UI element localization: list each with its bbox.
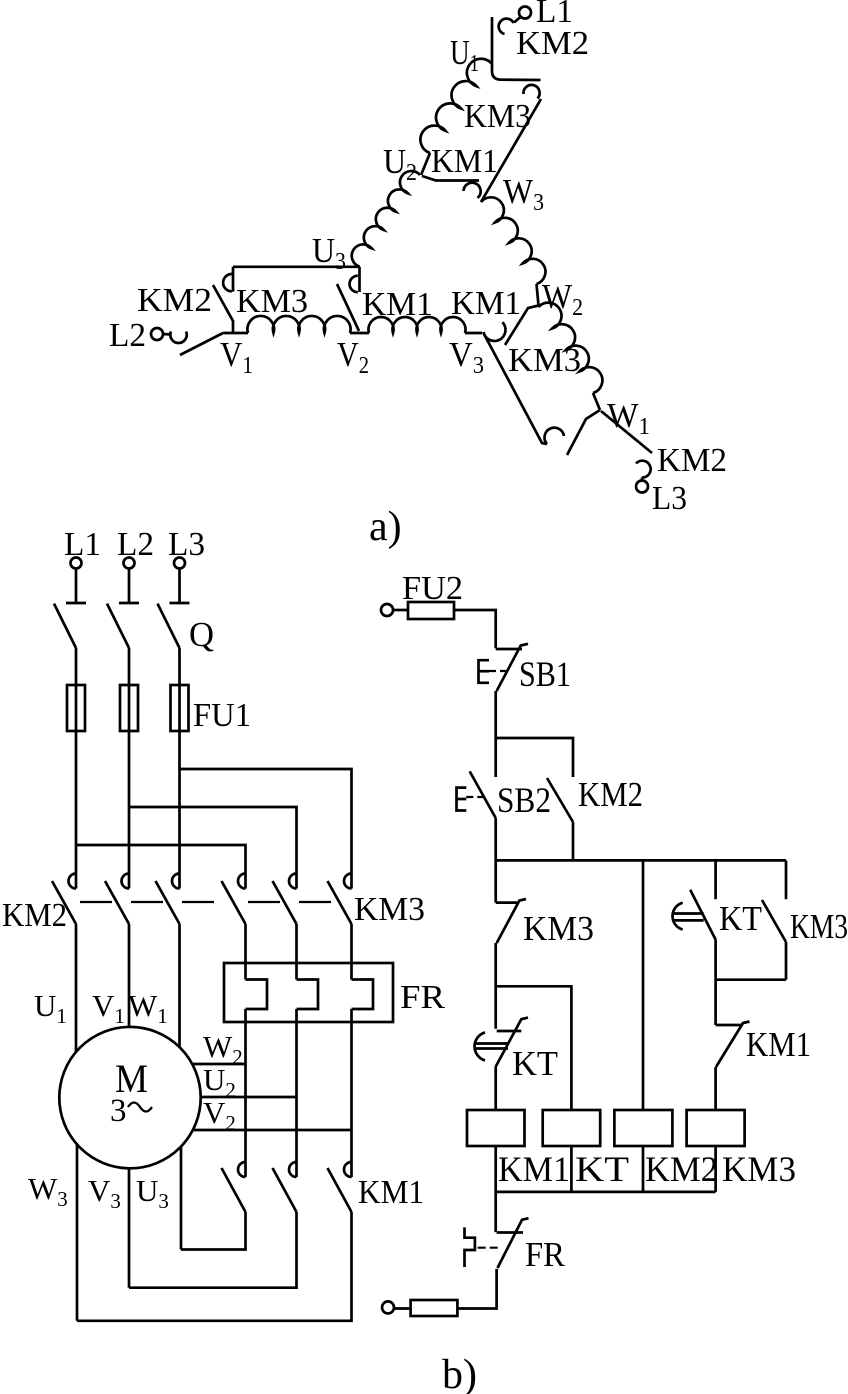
- wire motor bottom V3: [128, 1168, 131, 1287]
- terminal L1: [519, 7, 531, 19]
- wire motor bottom U3: [180, 1147, 183, 1250]
- node W1 wire: [593, 393, 600, 410]
- wire KM1-3 to W3: [77, 1212, 352, 1321]
- terminal control top: [381, 604, 393, 616]
- switch Q pole wire: [75, 569, 78, 602]
- wire to motor top: [178, 924, 181, 1047]
- svg-text:KM2: KM2: [516, 25, 589, 62]
- switch KM3 (V3-W1) blade: [567, 410, 600, 455]
- wire coil KM1 bottom: [494, 1146, 497, 1232]
- wire to FR box: [350, 924, 353, 980]
- node U2 wire: [421, 153, 430, 175]
- wire node CD: [716, 978, 786, 981]
- svg-text:KT: KT: [719, 899, 762, 938]
- fuse FU2 wire left: [393, 609, 408, 612]
- wire branch D top: [785, 860, 788, 899]
- svg-text:KM1: KM1: [431, 143, 498, 180]
- contact KM3 main hook: [238, 874, 246, 889]
- button SB1 blade: [497, 644, 528, 691]
- svg-text:L1: L1: [64, 526, 101, 563]
- svg-text:SB2: SB2: [497, 780, 551, 820]
- switch KM2 (L1-U1) hook: [499, 19, 514, 34]
- svg-text:L3: L3: [168, 526, 205, 563]
- winding coil U2-U3: [352, 171, 420, 267]
- fuse FU2 bottom: [411, 1300, 458, 1316]
- wire motor bottom W3: [76, 1145, 79, 1321]
- switch Q pole jaw bar: [119, 602, 139, 605]
- contact KM3 main blade: [273, 881, 297, 924]
- linkage dash: [80, 901, 112, 903]
- contact FR dashes: [478, 1247, 499, 1249]
- switch KM3 (V3-W1) diagonal: [484, 334, 547, 444]
- contact KM3 main blade: [328, 881, 352, 924]
- switch KM2 (L1-U1) blade wire to U1: [491, 17, 494, 64]
- wire V3 stub: [465, 332, 482, 335]
- svg-text:a): a): [369, 504, 402, 550]
- thermal relay FR heater: [297, 980, 319, 1010]
- wire KM1 NC down: [714, 1067, 717, 1110]
- motor label tilde: [128, 1103, 152, 1112]
- coil KM3: [687, 1110, 745, 1146]
- fuse FU2: [408, 602, 454, 619]
- contact KM2 main blade: [156, 881, 180, 924]
- wire L3 crossover: [180, 769, 352, 889]
- motor M circle: [59, 1027, 200, 1168]
- switch Q pole wire: [178, 569, 181, 602]
- svg-text:L2: L2: [109, 317, 146, 354]
- switch KM1 (V2-U3) blade: [337, 284, 359, 331]
- contact KT NO blade: [690, 890, 716, 940]
- wire L1 feeder: [75, 731, 78, 889]
- svg-text:KM1: KM1: [746, 1025, 811, 1064]
- wire bottom bus: [496, 1191, 716, 1194]
- switch KM1 (V2-U3) stub: [358, 267, 361, 292]
- fuse FU1 wire through: [178, 685, 181, 731]
- fuse FU1 wire through: [128, 685, 131, 731]
- svg-text:KM3: KM3: [790, 907, 848, 946]
- linkage dash: [299, 901, 331, 903]
- switch KM3 (U1-W3) blade diagonal: [481, 99, 541, 202]
- linkage dash: [131, 901, 163, 903]
- switch KM3 (V3-W1) hook: [545, 428, 564, 444]
- terminal L2 (b): [124, 558, 135, 569]
- button SB2 actuator: [457, 788, 467, 811]
- wire to FR box: [244, 924, 247, 980]
- switch KM2 (L2-V1) hook: [170, 332, 186, 344]
- contact KT delay cup: [475, 1032, 485, 1060]
- wire coil KM2 bottom: [642, 1146, 645, 1192]
- contact FR actuator: [465, 1227, 475, 1267]
- wire stub V2: [193, 1129, 352, 1132]
- switch Q pole wire: [128, 569, 131, 602]
- contact KT delayed blade: [496, 1018, 529, 1067]
- svg-text:FU2: FU2: [402, 570, 463, 607]
- svg-text:KM3: KM3: [523, 909, 594, 948]
- svg-text:KM2: KM2: [2, 897, 67, 934]
- wire KT NO down: [714, 940, 717, 1025]
- linkage dash: [182, 901, 214, 903]
- node V2 stub: [350, 332, 369, 335]
- contact KM1 blade: [273, 1168, 297, 1212]
- fuse FU1 element: [67, 685, 85, 731]
- wire FR down: [457, 1269, 496, 1309]
- winding coil V1-V2: [247, 316, 350, 333]
- contact KT NO cup: [672, 903, 682, 930]
- switch KM1 (V3-W2) blade: [505, 306, 539, 346]
- wire control bus: [496, 859, 786, 862]
- button SB1 bar: [496, 648, 522, 651]
- svg-text:L3: L3: [652, 480, 687, 517]
- svg-text:KM2: KM2: [137, 282, 212, 319]
- svg-text:KT: KT: [575, 1149, 629, 1189]
- wire KT to KM1 coil: [494, 1067, 497, 1110]
- wire KM3 aux down: [785, 942, 788, 980]
- svg-text:KM3: KM3: [236, 283, 308, 320]
- switch KM1 (U2) stub: [422, 176, 479, 181]
- svg-text:KM1: KM1: [358, 1174, 424, 1211]
- coil KM1: [467, 1110, 525, 1146]
- wire to FR box: [295, 924, 298, 980]
- contact KM1 NC bar: [716, 1024, 741, 1027]
- contact KM1 hook: [238, 1162, 246, 1177]
- wire L2 crossover: [129, 807, 297, 889]
- wire U3 bus: [233, 265, 360, 268]
- switch KM2 (L1-U1) stub: [514, 17, 521, 23]
- svg-text:KM3: KM3: [464, 98, 531, 135]
- contact KM2 main hook: [122, 874, 129, 889]
- switch KM3 (U1-W3) hook: [523, 85, 539, 99]
- terminal L1 (b): [71, 558, 82, 569]
- wire to motor top: [128, 924, 131, 1027]
- contact KM1 hook: [289, 1162, 296, 1177]
- svg-text:KM1: KM1: [498, 1149, 570, 1189]
- terminal control bottom: [382, 1301, 394, 1313]
- svg-text:KM3: KM3: [508, 342, 581, 379]
- thermal relay FR heater: [352, 980, 374, 1010]
- contact KT delayed bar: [497, 1030, 522, 1033]
- wire L2 feeder: [128, 731, 131, 889]
- svg-text:FR: FR: [400, 979, 445, 1016]
- wire to motor top: [75, 924, 78, 1052]
- terminal L3: [636, 481, 648, 493]
- wire KM1-1 to U3: [181, 1212, 246, 1250]
- wire fuse to terminal: [394, 1307, 411, 1310]
- contact KM1 NC blade: [716, 1022, 750, 1068]
- svg-text:3: 3: [110, 1093, 127, 1129]
- svg-text:KM3: KM3: [722, 1149, 796, 1189]
- contact KM3 NC bar: [496, 901, 518, 904]
- wire KM2 aux down: [572, 822, 575, 860]
- winding coil W2-W1: [539, 303, 603, 393]
- wire branch KM2 aux: [496, 738, 573, 777]
- switch KM1 (U2) hook: [464, 183, 481, 198]
- switch KM1 (V2-U3) hook: [350, 276, 358, 293]
- wire Q to FU1: [178, 648, 181, 685]
- svg-text:KT: KT: [512, 1044, 558, 1083]
- heater wire bottom: [295, 1009, 298, 1022]
- contact KM2 main blade: [105, 881, 129, 924]
- switch KM3 (U3-V1) blade: [213, 285, 233, 333]
- switch Q pole blade: [158, 604, 180, 648]
- wire branch KT coil: [496, 986, 572, 1110]
- contact KM3 NC blade: [497, 899, 526, 943]
- wire KM1-2 to V3: [129, 1212, 297, 1288]
- svg-text:b): b): [442, 1352, 477, 1394]
- wire L3 feeder: [178, 731, 181, 889]
- wire FU2 to SB1: [454, 610, 496, 648]
- wire branch C top: [714, 860, 717, 899]
- wire stub W2: [192, 1063, 246, 1066]
- fuse FU1 element: [120, 685, 138, 731]
- svg-text:KM3: KM3: [354, 891, 425, 928]
- wire Q to FU1: [75, 648, 78, 685]
- wire SB2 down: [494, 818, 497, 860]
- node U1 bend and stub: [492, 64, 541, 80]
- svg-text:KM2: KM2: [657, 442, 727, 479]
- wire branch B: [642, 860, 645, 1110]
- switch KM3 (U3-V1) hook: [223, 274, 232, 291]
- wire branch A top: [494, 860, 497, 902]
- contact KM3 main blade: [222, 881, 246, 924]
- switch KM2 (W1-L3) blade: [601, 411, 652, 453]
- switch KM2 (L2-V1) blade: [180, 333, 223, 355]
- switch KM2 (L2-V1) stub: [163, 333, 171, 336]
- wire W2 chain: [244, 1022, 247, 1177]
- terminal L2: [151, 328, 163, 340]
- button SB1 actuator: [479, 660, 490, 683]
- contact FR bar: [497, 1231, 523, 1234]
- wire stub U2: [201, 1096, 297, 1099]
- contact KM3 main hook: [289, 874, 296, 889]
- wire SB1 to SB2: [494, 691, 497, 777]
- svg-text:KM1: KM1: [451, 285, 521, 322]
- svg-text:KM2: KM2: [645, 1149, 718, 1189]
- switch KM3 (U3-V1) stub: [232, 267, 235, 292]
- svg-text:FR: FR: [525, 1235, 566, 1274]
- switch Q pole blade: [107, 604, 129, 648]
- coil KT: [543, 1110, 601, 1146]
- contact KM3 main hook: [344, 874, 352, 889]
- switch KM2 (W1-L3) stub: [641, 478, 644, 481]
- switch Q pole blade: [54, 604, 76, 648]
- switch KM1 (V3-W2) hook: [484, 322, 506, 341]
- contact FR blade: [498, 1218, 529, 1268]
- contact KM3 aux blade: [762, 900, 786, 942]
- contact KM2 aux blade: [547, 778, 573, 822]
- contact KM2 main blade: [52, 881, 76, 924]
- button SB2 dashes: [466, 796, 487, 798]
- switch Q pole jaw bar: [66, 602, 86, 605]
- switch KM2 (W1-L3) hook: [636, 461, 651, 478]
- wire L1 crossover: [76, 845, 246, 889]
- wire V1 stub: [223, 332, 248, 335]
- thermal relay FR box: [224, 963, 393, 1022]
- coil KM2: [614, 1110, 672, 1146]
- winding coil W3-W2: [481, 197, 545, 284]
- wire U2 chain: [295, 1022, 298, 1177]
- heater wire bottom: [244, 1009, 247, 1022]
- contact KM1 blade: [222, 1168, 246, 1212]
- wire KM3NC down: [494, 943, 497, 1029]
- wire Q to FU1: [128, 648, 131, 685]
- svg-text:FU1: FU1: [193, 697, 251, 734]
- switch Q pole jaw bar: [170, 602, 190, 605]
- winding coil V2-V3: [369, 317, 466, 333]
- fuse FU1 element: [171, 685, 189, 731]
- svg-text:L2: L2: [117, 526, 154, 563]
- winding coil U1-U2: [420, 59, 492, 153]
- fuse FU1 wire through: [75, 685, 78, 731]
- linkage dash: [248, 901, 280, 903]
- wire coil KT bottom: [570, 1146, 573, 1192]
- thermal relay FR heater: [246, 980, 268, 1010]
- button SB2 blade: [470, 771, 496, 818]
- contact KM1 blade: [328, 1168, 352, 1212]
- button SB1 dashes: [489, 670, 507, 672]
- heater wire bottom: [350, 1009, 353, 1022]
- svg-text:SB1: SB1: [519, 654, 571, 694]
- contact KM2 main hook: [69, 874, 76, 889]
- svg-text:Q: Q: [189, 615, 214, 654]
- terminal L3 (b): [174, 558, 185, 569]
- wire coil KM3 bottom: [714, 1146, 717, 1192]
- contact KM2 main hook: [172, 874, 180, 889]
- wire V2 chain: [350, 1022, 353, 1177]
- contact KM1 hook: [344, 1162, 352, 1177]
- node W2 wire: [537, 284, 539, 306]
- svg-text:KM2: KM2: [578, 775, 643, 814]
